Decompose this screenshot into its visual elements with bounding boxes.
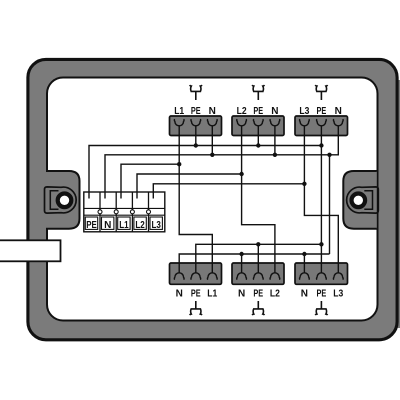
clamp contact U5-PE [253, 273, 263, 279]
strip test port 1 [98, 210, 102, 214]
terminal label box PE [85, 217, 97, 229]
supply terminal strip X1 [84, 192, 165, 232]
clamp contact U4-L1 [207, 273, 217, 279]
wire L1 through U1 to U4 [179, 126, 212, 273]
clamp contact U5-L2 [270, 273, 280, 279]
wire U2-PE stub [257, 126, 259, 145]
clamp contact U6-PE [317, 273, 327, 279]
strip rail lower [84, 214, 165, 216]
clamp contact U5-N [237, 273, 247, 279]
junction L3/U3 [302, 182, 306, 186]
clamp contact U3-L3 [300, 120, 310, 126]
bottom socket block U5 [232, 263, 284, 300]
svg-text:L1: L1 [119, 220, 129, 231]
wire U1-PE stub [195, 126, 197, 145]
junction bottom PE/U5 [256, 242, 260, 246]
strip body [84, 192, 165, 232]
svg-text:L1: L1 [207, 289, 217, 300]
ear keyhole outline [45, 187, 77, 213]
wire U5-PE stub [257, 244, 259, 272]
wire U1-N stub [211, 126, 213, 155]
svg-text:N: N [104, 220, 111, 231]
clamp contact U1-N [207, 120, 217, 126]
top socket block U2 [232, 106, 284, 136]
wire L1 from strip to U1 [121, 164, 179, 198]
wire L3 through U3 to U6 [304, 126, 338, 273]
clamp contact U6-N [300, 273, 310, 279]
junction PE/U2 [256, 143, 260, 147]
cable entry tab left [0, 240, 61, 261]
svg-text:N: N [271, 106, 278, 117]
wire PE bus from strip to top blocks [89, 146, 321, 199]
clamp contact U4-PE [191, 273, 201, 279]
ear body [46, 171, 80, 229]
clamp contacts top blocks [174, 120, 343, 126]
svg-text:L3: L3 [152, 220, 162, 231]
strip divider 2 [115, 192, 117, 232]
top socket block U1 [170, 106, 222, 136]
junction N/drop [327, 153, 331, 157]
wire U5-N stub [241, 254, 243, 273]
strip divider 3 [131, 192, 133, 232]
clamp contact U2-L2 [237, 120, 247, 126]
junction bottom N/U5 [239, 252, 243, 256]
svg-text:L1: L1 [174, 106, 184, 117]
junction PE/U1 [194, 143, 198, 147]
outgoing feed symbol U5 [252, 301, 264, 315]
wire PE drop to bottom bus [320, 126, 322, 273]
strip divider 1 [99, 192, 101, 232]
svg-text:L2: L2 [237, 106, 247, 117]
strip divider 4 [148, 192, 150, 232]
strip test port 3 [130, 210, 134, 214]
terminal label box L2 [134, 217, 146, 229]
clamp contact U2-PE [253, 120, 263, 126]
junction N/U2 [273, 153, 277, 157]
junction N/U1 [210, 153, 214, 157]
wire U6-N stub [303, 254, 305, 273]
strip test port 2 [114, 210, 118, 214]
junction bottom PE/U6 [319, 242, 323, 246]
wire bottom N bus [179, 254, 329, 273]
feed symbols below bottom blocks [190, 301, 328, 315]
svg-text:PE: PE [191, 106, 201, 117]
feed symbols above top blocks [190, 85, 328, 100]
svg-text:PE: PE [191, 289, 201, 300]
svg-text:PE: PE [86, 220, 97, 231]
svg-text:L3: L3 [333, 289, 343, 300]
svg-text:L2: L2 [135, 220, 145, 231]
wire N bus from strip to top blocks [105, 126, 338, 198]
mounting ear right [343, 171, 378, 229]
ear screw hole [58, 194, 72, 208]
enclosure right-edge flange sliver [397, 80, 400, 328]
clamp contact U6-L3 [333, 273, 343, 279]
ear screw hole [352, 194, 366, 208]
junction L2/U2 [239, 172, 243, 176]
ear clip bracket [50, 191, 58, 209]
outgoing feed symbol U4 [190, 301, 202, 315]
wire U2-N stub [274, 126, 276, 155]
bottom socket block U6 [295, 263, 348, 300]
outgoing feed symbol U3 [315, 85, 327, 100]
svg-text:PE: PE [317, 289, 327, 300]
strip rail upper [84, 207, 165, 209]
enclosure frame outer wall [28, 59, 397, 339]
bottom socket block U4 [170, 263, 222, 300]
clamp contact U1-L1 [174, 120, 184, 126]
wire L2 through U2 to U5 [242, 126, 275, 273]
svg-text:PE: PE [253, 289, 263, 300]
terminal label box N [102, 217, 114, 229]
outgoing feed symbol U6 [315, 301, 327, 315]
svg-text:N: N [176, 289, 183, 300]
svg-text:L3: L3 [299, 106, 309, 117]
clamp contact U2-N [270, 120, 280, 126]
svg-text:N: N [335, 106, 342, 117]
svg-text:PE: PE [253, 106, 263, 117]
clamp contact U3-PE [317, 120, 327, 126]
terminal label box L1 [118, 217, 130, 229]
wire L3 from strip to U3 [153, 184, 304, 199]
junction bottom N/U6 [302, 252, 306, 256]
ear body [343, 171, 377, 229]
clamp contact U3-N [333, 120, 343, 126]
clamp contact U1-PE [191, 120, 201, 126]
svg-text:N: N [238, 289, 245, 300]
svg-text:N: N [301, 289, 308, 300]
mounting ear left [45, 171, 80, 229]
strip test port 4 [147, 210, 151, 214]
clamp contacts bottom blocks [174, 273, 343, 279]
terminal label box L3 [150, 217, 162, 229]
top socket block U3 [295, 106, 348, 136]
ear keyhole outline [347, 187, 379, 213]
outgoing feed symbol U2 [252, 85, 264, 100]
ear clip bracket [364, 191, 372, 209]
svg-text:N: N [209, 106, 216, 117]
svg-text:L2: L2 [270, 289, 280, 300]
enclosure inner opening [47, 78, 378, 321]
junction PE/drop [319, 143, 323, 147]
clamp contact U4-N [174, 273, 184, 279]
wire L2 from strip to U2 [137, 174, 242, 199]
wire bottom PE bus [196, 244, 322, 272]
wire N drop to bottom bus [329, 155, 331, 254]
junction L1/U1 [177, 162, 181, 166]
svg-text:PE: PE [317, 106, 327, 117]
outgoing feed symbol U1 [190, 85, 202, 100]
